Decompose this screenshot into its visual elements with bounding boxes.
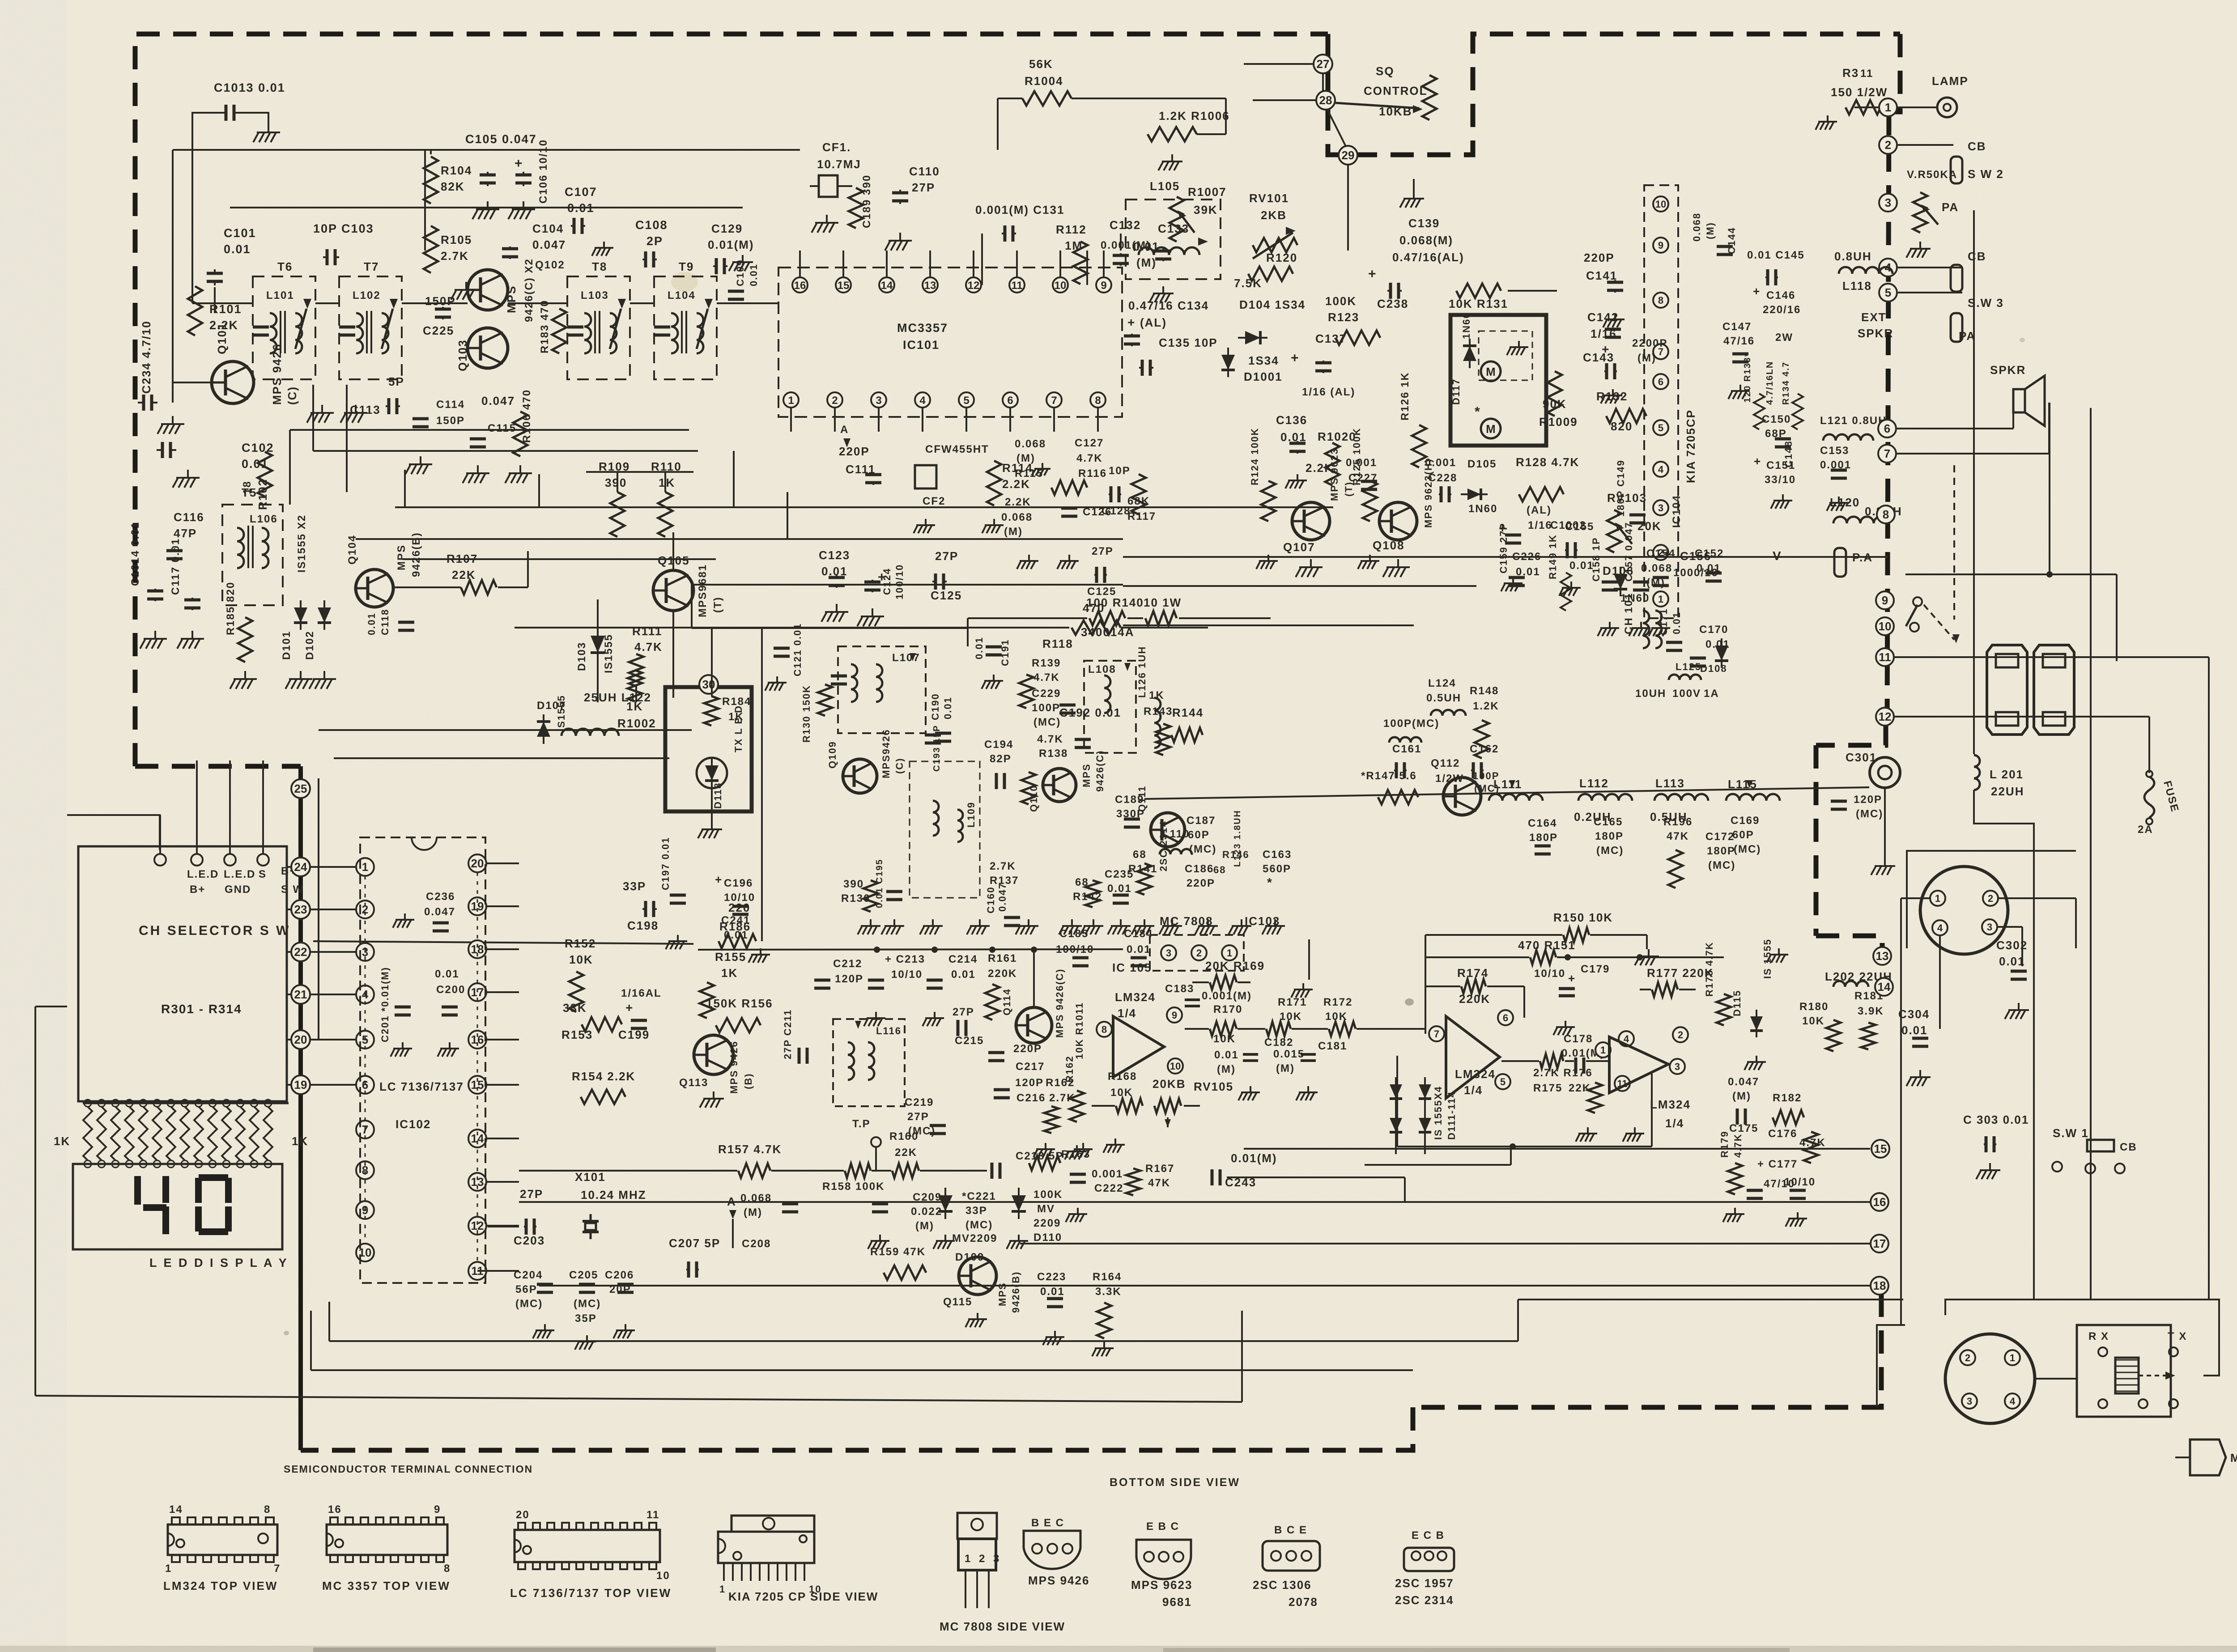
svg-text:CH SELECTOR S W: CH SELECTOR S W <box>139 923 290 938</box>
svg-text:3: 3 <box>1987 922 1992 933</box>
svg-text:C155: C155 <box>1565 521 1594 533</box>
svg-text:82K: 82K <box>441 180 465 193</box>
svg-text:T9: T9 <box>679 260 694 273</box>
svg-text:R130 150K: R130 150K <box>801 685 812 743</box>
svg-text:47/16: 47/16 <box>1723 335 1755 347</box>
svg-text:10K R1011: 10K R1011 <box>1074 1002 1085 1059</box>
svg-text:CB: CB <box>1968 250 1986 263</box>
svg-text:L E D D I S P L A Y: L E D D I S P L A Y <box>149 1256 289 1270</box>
svg-text:3.9K: 3.9K <box>1858 1005 1884 1017</box>
svg-text:28: 28 <box>1319 93 1332 107</box>
svg-text:R101: R101 <box>209 302 242 316</box>
svg-text:+: + <box>1368 267 1377 281</box>
svg-text:6: 6 <box>1884 422 1890 435</box>
svg-text:C1014 0.01: C1014 0.01 <box>129 522 141 586</box>
svg-text:3: 3 <box>1166 947 1171 959</box>
svg-text:1: 1 <box>1885 101 1891 114</box>
svg-text:MPS 9623(H): MPS 9623(H) <box>1423 459 1434 528</box>
svg-text:C194: C194 <box>984 739 1013 751</box>
svg-text:2200P: 2200P <box>1632 337 1667 349</box>
svg-text:RV105: RV105 <box>1194 1080 1233 1093</box>
svg-text:C107: C107 <box>565 185 597 199</box>
svg-text:8: 8 <box>1101 1024 1107 1035</box>
svg-text:9: 9 <box>1101 280 1106 292</box>
svg-text:220P: 220P <box>1187 877 1215 889</box>
svg-text:0.015: 0.015 <box>1273 1048 1305 1060</box>
svg-text:33P: 33P <box>623 879 646 893</box>
svg-text:C116: C116 <box>174 510 204 524</box>
svg-text:0.01: 0.01 <box>366 612 377 635</box>
svg-text:L113: L113 <box>1655 777 1685 790</box>
svg-text:MPS 9623: MPS 9623 <box>1329 448 1340 501</box>
svg-text:R1020: R1020 <box>1318 430 1357 443</box>
svg-text:L112: L112 <box>1579 777 1609 790</box>
svg-text:0.001: 0.001 <box>1425 457 1456 469</box>
svg-text:Q109: Q109 <box>827 741 838 769</box>
svg-text:10: 10 <box>1655 199 1666 210</box>
svg-text:C113: C113 <box>350 403 381 416</box>
svg-text:R138: R138 <box>1039 747 1068 760</box>
svg-text:A: A <box>840 424 849 436</box>
svg-text:1 2 3: 1 2 3 <box>965 1553 1002 1565</box>
svg-text:(MC): (MC) <box>1189 843 1216 855</box>
svg-text:0.068: 0.068 <box>1691 212 1702 242</box>
svg-text:0.01: 0.01 <box>951 968 976 981</box>
svg-text:R164: R164 <box>1093 1271 1122 1283</box>
svg-text:C200: C200 <box>436 984 465 996</box>
svg-text:4.7K: 4.7K <box>1732 1134 1744 1158</box>
svg-text:(AL): (AL) <box>1140 316 1167 329</box>
svg-text:MPS: MPS <box>396 544 408 570</box>
svg-text:7.5K: 7.5K <box>1234 276 1262 290</box>
svg-text:1: 1 <box>1658 594 1663 605</box>
svg-text:MV2209: MV2209 <box>952 1232 997 1244</box>
svg-text:C186: C186 <box>1185 863 1214 875</box>
svg-text:100K: 100K <box>1033 1189 1063 1201</box>
svg-text:L111: L111 <box>1493 777 1522 791</box>
svg-text:7: 7 <box>274 1563 281 1575</box>
svg-text:1K: 1K <box>721 966 738 980</box>
svg-text:100 R140: 100 R140 <box>1086 596 1144 609</box>
svg-text:1K: 1K <box>54 1134 70 1148</box>
svg-text:18: 18 <box>1873 1279 1886 1292</box>
svg-text:D103: D103 <box>576 642 588 671</box>
svg-text:0.01(M): 0.01(M) <box>708 238 754 251</box>
svg-text:+: + <box>515 156 523 171</box>
svg-text:Q108: Q108 <box>1373 539 1405 552</box>
svg-text:6: 6 <box>1503 1012 1508 1023</box>
svg-text:10K: 10K <box>1280 1011 1302 1023</box>
svg-text:C164: C164 <box>1528 817 1557 829</box>
svg-text:220P: 220P <box>1584 251 1615 264</box>
svg-text:C234 4.7/10: C234 4.7/10 <box>140 320 153 394</box>
svg-text:1/16 (AL): 1/16 (AL) <box>1302 386 1355 398</box>
svg-text:S: S <box>259 868 267 880</box>
svg-text:(MC): (MC) <box>574 1298 601 1310</box>
svg-text:2: 2 <box>832 395 838 407</box>
svg-text:C206: C206 <box>605 1269 634 1281</box>
svg-text:20: 20 <box>516 1509 530 1521</box>
svg-text:R1007: R1007 <box>1188 185 1227 199</box>
svg-text:C191: C191 <box>999 639 1011 666</box>
svg-text:1/4: 1/4 <box>1118 1006 1136 1020</box>
svg-text:C190: C190 <box>930 693 941 720</box>
svg-text:10/10: 10/10 <box>1784 1176 1816 1188</box>
svg-text:10.7MJ: 10.7MJ <box>817 157 861 171</box>
svg-text:C133: C133 <box>1158 222 1189 235</box>
svg-text:2.7K: 2.7K <box>990 860 1016 872</box>
svg-text:22K: 22K <box>1569 1082 1591 1094</box>
svg-text:2SC 1957: 2SC 1957 <box>1395 1576 1454 1590</box>
svg-text:R105: R105 <box>441 233 472 246</box>
svg-text:C207 5P: C207 5P <box>669 1236 720 1250</box>
svg-text:D117: D117 <box>1450 378 1462 405</box>
svg-text:R185 820: R185 820 <box>225 582 237 635</box>
svg-text:L121 0.8UH: L121 0.8UH <box>1820 415 1887 427</box>
svg-text:1/4: 1/4 <box>1464 1083 1483 1097</box>
svg-text:12: 12 <box>1879 710 1892 723</box>
svg-text:1: 1 <box>1600 1045 1606 1056</box>
svg-text:14: 14 <box>1878 980 1891 994</box>
svg-text:4: 4 <box>2010 1396 2016 1407</box>
svg-text:T6: T6 <box>277 260 293 273</box>
svg-text:R167: R167 <box>1145 1163 1174 1175</box>
svg-text:S W 2: S W 2 <box>1968 167 2004 181</box>
svg-text:29: 29 <box>1342 149 1355 162</box>
svg-text:0.01 C145: 0.01 C145 <box>1747 249 1805 261</box>
svg-text:C225: C225 <box>423 324 454 337</box>
svg-text:0.47/16(AL): 0.47/16(AL) <box>1392 251 1464 264</box>
svg-text:0.01: 0.01 <box>1040 1286 1065 1298</box>
svg-text:7: 7 <box>1884 447 1890 460</box>
svg-text:R150 10K: R150 10K <box>1553 911 1613 924</box>
svg-text:L118: L118 <box>1842 279 1872 293</box>
svg-text:47K: 47K <box>1667 830 1689 842</box>
svg-text:+: + <box>715 873 723 886</box>
svg-text:LM324 TOP VIEW: LM324 TOP VIEW <box>163 1579 278 1593</box>
svg-text:22UH: 22UH <box>1991 785 2024 798</box>
svg-text:(MC): (MC) <box>1033 716 1061 728</box>
svg-text:2: 2 <box>1196 947 1202 959</box>
svg-text:C223: C223 <box>1037 1271 1066 1283</box>
svg-text:1.2K: 1.2K <box>1473 700 1499 712</box>
svg-text:EXT: EXT <box>1861 310 1887 324</box>
svg-text:C157 0.047: C157 0.047 <box>1623 522 1634 582</box>
svg-text:23: 23 <box>294 903 307 916</box>
svg-text:(B): (B) <box>743 1073 754 1089</box>
svg-text:SPKR: SPKR <box>1858 327 1893 340</box>
svg-text:C127: C127 <box>1075 437 1104 449</box>
svg-text:0.047: 0.047 <box>481 394 515 408</box>
svg-text:R3: R3 <box>1842 66 1859 80</box>
svg-text:X101: X101 <box>575 1170 606 1184</box>
svg-text:+: + <box>1568 972 1576 985</box>
svg-text:R104: R104 <box>441 164 472 177</box>
svg-text:C142: C142 <box>1587 310 1619 324</box>
svg-text:R128 4.7K: R128 4.7K <box>1516 455 1579 469</box>
svg-text:L125: L125 <box>1676 661 1701 672</box>
svg-text:(AL): (AL) <box>1527 504 1552 516</box>
svg-text:IC 105: IC 105 <box>1112 961 1152 974</box>
svg-text:1/16AL: 1/16AL <box>621 987 662 999</box>
svg-text:C137: C137 <box>1315 332 1347 345</box>
svg-text:10 1W: 10 1W <box>1144 596 1182 609</box>
svg-text:L124: L124 <box>1428 677 1456 689</box>
svg-text:1S34: 1S34 <box>1248 354 1279 367</box>
svg-text:C216: C216 <box>1016 1092 1046 1104</box>
svg-text:R157 4.7K: R157 4.7K <box>718 1142 782 1156</box>
svg-text:2078: 2078 <box>1289 1595 1318 1609</box>
svg-text:1: 1 <box>2010 1352 2015 1363</box>
svg-text:0.47/16 C134: 0.47/16 C134 <box>1128 299 1209 312</box>
svg-text:C1013 0.01: C1013 0.01 <box>214 81 285 94</box>
svg-text:L106: L106 <box>250 513 278 525</box>
svg-text:TX L E D: TX L E D <box>733 705 744 752</box>
svg-text:5: 5 <box>963 395 969 407</box>
svg-text:68: 68 <box>1133 849 1147 861</box>
svg-text:C121 0.01: C121 0.01 <box>792 623 803 676</box>
svg-text:IS 1555X4: IS 1555X4 <box>1433 1086 1444 1140</box>
svg-text:33K: 33K <box>563 1001 587 1015</box>
svg-text:C148: C148 <box>1783 440 1794 467</box>
svg-text:15: 15 <box>838 280 850 292</box>
svg-text:4: 4 <box>1937 922 1943 934</box>
svg-text:C115: C115 <box>488 422 516 434</box>
svg-text:C150: C150 <box>1762 413 1791 425</box>
svg-text:C199: C199 <box>618 1028 650 1041</box>
svg-text:+ C177: + C177 <box>1757 1158 1798 1170</box>
svg-text:R118: R118 <box>1042 637 1073 650</box>
svg-text:L.E.D: L.E.D <box>187 868 219 880</box>
svg-text:0.01: 0.01 <box>1214 1049 1239 1061</box>
svg-text:C128: C128 <box>1101 505 1131 517</box>
svg-text:20K R169: 20K R169 <box>1205 959 1265 973</box>
svg-text:C129: C129 <box>711 222 743 235</box>
svg-text:C 303 0.01: C 303 0.01 <box>1963 1113 2029 1126</box>
svg-text:9: 9 <box>1172 1010 1177 1021</box>
svg-text:IC101: IC101 <box>903 338 940 352</box>
svg-text:D104 1S34: D104 1S34 <box>1239 298 1306 311</box>
svg-text:C125: C125 <box>931 589 962 602</box>
svg-text:R175: R175 <box>1533 1082 1562 1094</box>
svg-text:C214: C214 <box>948 953 978 965</box>
svg-text:11: 11 <box>1011 280 1022 292</box>
svg-text:V: V <box>1773 549 1782 563</box>
svg-text:(M): (M) <box>1217 1063 1236 1075</box>
svg-text:R134 4.7: R134 4.7 <box>1781 361 1791 405</box>
svg-text:L.E.D: L.E.D <box>224 868 255 880</box>
svg-text:0.01(M): 0.01(M) <box>1231 1151 1277 1165</box>
svg-text:R1009: R1009 <box>1539 415 1578 429</box>
svg-text:7: 7 <box>1051 395 1057 407</box>
svg-text:47K: 47K <box>1148 1177 1170 1189</box>
svg-text:D111-114: D111-114 <box>1446 1091 1457 1140</box>
svg-text:14: 14 <box>169 1503 183 1516</box>
svg-text:68: 68 <box>1213 864 1226 875</box>
svg-text:LM324: LM324 <box>1650 1098 1691 1111</box>
svg-text:180P: 180P <box>1707 845 1735 857</box>
svg-text:C183: C183 <box>1165 983 1194 995</box>
svg-text:L 201: L 201 <box>1990 768 2024 781</box>
svg-text:25: 25 <box>294 782 307 795</box>
svg-text:D108: D108 <box>1700 663 1727 674</box>
svg-text:30: 30 <box>702 678 715 691</box>
svg-text:C106 10/10: C106 10/10 <box>537 139 549 204</box>
svg-text:RV101: RV101 <box>1249 191 1289 205</box>
svg-text:10K: 10K <box>569 953 593 966</box>
svg-text:C205: C205 <box>569 1269 598 1281</box>
svg-text:MPS 9426: MPS 9426 <box>1028 1574 1089 1587</box>
svg-text:LM324: LM324 <box>1115 990 1156 1004</box>
svg-text:150P: 150P <box>436 415 465 427</box>
svg-text:C109: C109 <box>735 259 746 286</box>
svg-text:4: 4 <box>919 395 926 407</box>
svg-text:1A: 1A <box>1704 688 1719 700</box>
svg-text:GND: GND <box>225 883 251 896</box>
svg-text:LC 7136/7137: LC 7136/7137 <box>379 1080 464 1093</box>
svg-text:IS1555: IS1555 <box>603 634 615 673</box>
svg-text:R126 1K: R126 1K <box>1399 372 1411 420</box>
svg-text:S W: S W <box>281 883 304 896</box>
svg-text:(MC): (MC) <box>1596 845 1624 857</box>
svg-text:C219: C219 <box>905 1096 934 1108</box>
svg-text:10: 10 <box>1055 280 1067 292</box>
svg-text:C215: C215 <box>955 1035 984 1047</box>
svg-text:SPKR: SPKR <box>1990 363 2026 377</box>
svg-text:L107: L107 <box>892 652 920 664</box>
svg-text:0.068: 0.068 <box>1001 511 1033 523</box>
svg-text:22K: 22K <box>895 1147 917 1159</box>
svg-text:25UH L122: 25UH L122 <box>584 691 651 704</box>
svg-text:10UH: 10UH <box>1635 688 1666 700</box>
svg-text:CONTROL: CONTROL <box>1364 84 1428 98</box>
svg-text:C147: C147 <box>1722 321 1752 333</box>
svg-text:L110: L110 <box>1162 828 1190 840</box>
svg-text:0.01: 0.01 <box>1901 1023 1928 1037</box>
svg-text:R154 2.2K: R154 2.2K <box>572 1070 635 1083</box>
svg-text:C158 1P: C158 1P <box>1591 537 1602 582</box>
svg-text:(M): (M) <box>1276 1062 1295 1074</box>
svg-text:4.7K: 4.7K <box>634 640 663 654</box>
svg-text:(MC): (MC) <box>1734 843 1761 855</box>
svg-text:C179: C179 <box>1581 963 1610 975</box>
svg-text:T X: T X <box>2168 1330 2187 1342</box>
svg-text:L123 1.8UH: L123 1.8UH <box>1233 810 1242 867</box>
svg-text:220/16: 220/16 <box>1763 304 1801 316</box>
svg-text:D101: D101 <box>281 631 293 660</box>
svg-text:220P: 220P <box>839 445 870 458</box>
svg-text:(M): (M) <box>744 1206 762 1219</box>
svg-text:RV103: RV103 <box>1607 491 1647 505</box>
svg-text:C110: C110 <box>909 165 940 178</box>
svg-text:(M): (M) <box>1637 352 1656 364</box>
svg-text:1M: 1M <box>1065 239 1083 252</box>
svg-text:C163: C163 <box>1263 849 1292 861</box>
svg-text:8: 8 <box>264 1503 271 1516</box>
svg-text:1: 1 <box>165 1563 172 1575</box>
svg-text:0.01: 0.01 <box>974 637 985 659</box>
svg-text:2A: 2A <box>2138 824 2153 836</box>
svg-text:27P: 27P <box>953 1006 974 1018</box>
svg-text:180P: 180P <box>1595 830 1624 842</box>
svg-text:C175: C175 <box>1729 1122 1758 1134</box>
svg-text:100P(MC): 100P(MC) <box>1383 718 1439 730</box>
svg-text:L116: L116 <box>876 1025 902 1036</box>
svg-text:(C): (C) <box>894 757 905 774</box>
svg-text:C153: C153 <box>1820 445 1849 457</box>
svg-text:C203: C203 <box>514 1234 545 1247</box>
svg-text:3: 3 <box>876 395 881 407</box>
svg-text:27: 27 <box>1317 57 1330 71</box>
svg-text:SEMICONDUCTOR TERMINAL CONNE: SEMICONDUCTOR TERMINAL CONNECTION <box>284 1463 533 1475</box>
svg-text:(M): (M) <box>1136 256 1157 269</box>
svg-text:LC 7136/7137 TOP VIEW: LC 7136/7137 TOP VIEW <box>510 1586 672 1600</box>
svg-text:M: M <box>1486 422 1496 436</box>
svg-text:R111: R111 <box>632 624 662 638</box>
svg-text:C181: C181 <box>1318 1040 1347 1052</box>
svg-text:C169: C169 <box>1731 815 1760 827</box>
svg-text:C102: C102 <box>242 441 274 454</box>
svg-text:3: 3 <box>1885 196 1891 209</box>
svg-text:33/10: 33/10 <box>1765 474 1796 486</box>
svg-text:C238: C238 <box>1377 297 1408 310</box>
svg-text:21: 21 <box>294 988 307 1001</box>
svg-text:+: + <box>1754 454 1761 468</box>
svg-text:C200: C200 <box>465 977 470 978</box>
svg-text:9426(C) X2: 9426(C) X2 <box>523 258 535 322</box>
svg-text:R179: R179 <box>1719 1130 1730 1158</box>
svg-text:D105: D105 <box>1467 458 1497 470</box>
svg-text:C229: C229 <box>1032 688 1061 700</box>
svg-text:C165: C165 <box>1594 816 1623 828</box>
svg-text:MV: MV <box>1037 1203 1055 1215</box>
svg-text:C193 15P: C193 15P <box>932 725 942 772</box>
svg-text:L109: L109 <box>965 802 977 828</box>
svg-text:10: 10 <box>1170 1061 1181 1072</box>
svg-text:C228: C228 <box>1428 472 1457 484</box>
svg-text:MPS 9426: MPS 9426 <box>728 1040 740 1094</box>
svg-text:24: 24 <box>294 860 307 874</box>
svg-text:C123: C123 <box>819 548 850 562</box>
svg-text:27P: 27P <box>520 1187 543 1201</box>
svg-text:5: 5 <box>1658 422 1663 433</box>
svg-text:0.01: 0.01 <box>224 242 251 256</box>
svg-text:(M): (M) <box>915 1220 934 1232</box>
svg-text:C241: C241 <box>721 914 750 926</box>
svg-text:L101: L101 <box>266 289 294 302</box>
svg-text:C172: C172 <box>1705 831 1735 843</box>
svg-text:C101: C101 <box>224 226 256 240</box>
svg-text:T8: T8 <box>592 260 607 273</box>
svg-text:C117 0.01: C117 0.01 <box>170 538 182 595</box>
svg-text:MC3357: MC3357 <box>897 321 948 335</box>
svg-text:C136: C136 <box>1276 413 1307 427</box>
svg-text:Q112: Q112 <box>1431 757 1460 769</box>
svg-text:R171: R171 <box>1278 996 1307 1008</box>
svg-text:CF2: CF2 <box>923 495 945 507</box>
svg-text:0.047: 0.047 <box>424 906 455 918</box>
svg-text:C118: C118 <box>379 609 391 635</box>
svg-text:R X: R X <box>2088 1330 2109 1342</box>
svg-text:(M): (M) <box>1705 222 1716 239</box>
svg-text:1: 1 <box>788 395 794 407</box>
svg-text:2SC 1306: 2SC 1306 <box>1253 1578 1312 1592</box>
svg-text:LAMP: LAMP <box>1932 74 1969 88</box>
svg-text:(MC): (MC) <box>1856 808 1883 820</box>
svg-text:IC104: IC104 <box>1671 495 1683 528</box>
svg-text:2: 2 <box>1885 138 1891 152</box>
svg-text:180P C149: 180P C149 <box>1615 459 1626 517</box>
